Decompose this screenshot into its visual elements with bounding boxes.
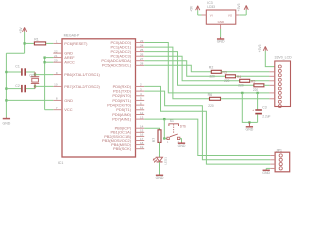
svg-text:220: 220 [210, 75, 216, 79]
svg-text:220: 220 [224, 79, 230, 83]
voltage regulator IC3 LD33 [206, 10, 236, 24]
wire to R1 [25, 42, 35, 44]
svg-text:20: 20 [54, 59, 58, 63]
IC IC1 MEGA8-P body [62, 39, 136, 157]
wire XTAL1 pin [35, 74, 53, 76]
svg-text:28: 28 [140, 62, 144, 66]
IC3 input pin stub [202, 14, 207, 16]
svg-text:PC6(RESET): PC6(RESET) [64, 41, 88, 46]
wire PC4 to R3 [144, 61, 225, 77]
junction C2 row [5, 87, 7, 89]
+5V supply symbol [23, 27, 25, 31]
wire GND pin 8 row [6, 99, 53, 101]
wire R2 to LCD connector [221, 71, 269, 73]
wire R7 to LED [159, 142, 161, 157]
IC1 left pins [53, 42, 62, 44]
svg-text:21: 21 [54, 54, 58, 58]
IC1 right pins [136, 42, 145, 44]
svg-text:PB7(XTAL2/TOSC2): PB7(XTAL2/TOSC2) [64, 84, 100, 89]
svg-text:22: 22 [54, 49, 58, 53]
wire PC2 to R5 [144, 52, 254, 86]
wire GND branch from PD1 row [242, 93, 249, 123]
junction AREF [43, 56, 45, 58]
wire +3V3 to connector [265, 51, 275, 67]
wire PD7 to JP1 and S1 [144, 119, 270, 155]
svg-text:S1: S1 [170, 119, 174, 123]
pushbutton S1 [164, 138, 167, 140]
svg-text:10: 10 [54, 83, 58, 87]
wire PC3 to R4 [144, 56, 240, 81]
stubs into LCD connector [269, 71, 274, 73]
resistor R3 [226, 75, 236, 78]
svg-text:VCC: VCC [64, 107, 72, 112]
svg-text:DT6: DT6 [180, 125, 186, 129]
ground symbol under regulator [220, 37, 222, 39]
wire PB0 to R7 [144, 128, 159, 130]
svg-text:PB6(XTAL1/TOSC1): PB6(XTAL1/TOSC1) [64, 72, 100, 77]
svg-text:Q2: Q2 [29, 74, 34, 78]
svg-text:+3V3: +3V3 [258, 44, 262, 52]
svg-text:C2: C2 [15, 84, 20, 88]
svg-text:GND: GND [3, 122, 11, 126]
svg-text:R4: R4 [237, 75, 242, 79]
capacitor C2 [6, 88, 21, 90]
svg-text:LD33: LD33 [207, 5, 215, 9]
svg-text:R3: R3 [222, 70, 227, 74]
junction GND branch [241, 92, 243, 94]
junction S1 branch [163, 118, 165, 120]
resistor R6 [210, 97, 221, 100]
+3V3 supply at LCD connector [263, 46, 265, 50]
svg-text:+5V: +5V [190, 5, 194, 12]
wire +5V rail down [24, 32, 26, 53]
svg-text:27: 27 [140, 57, 144, 61]
svg-text:12: 12 [140, 111, 144, 115]
svg-text:GND: GND [217, 40, 225, 44]
crystal Q2 [34, 72, 36, 77]
svg-text:R2: R2 [209, 66, 214, 70]
resistor R5 [254, 84, 264, 87]
wire horizontal to left rail [6, 52, 24, 54]
svg-text:+3V3: +3V3 [237, 3, 241, 11]
LED LED1 [157, 157, 163, 161]
svg-text:R1: R1 [34, 38, 39, 42]
svg-text:AVCC: AVCC [64, 60, 75, 65]
svg-text:R5: R5 [251, 80, 256, 84]
svg-text:GND: GND [218, 20, 224, 24]
wire VCC pin 7 [45, 109, 54, 111]
junction AVCC [43, 61, 45, 63]
junction on +5V rail at R1 row [23, 42, 25, 44]
svg-text:GND: GND [262, 171, 270, 175]
svg-text:25: 25 [140, 48, 144, 52]
svg-text:LED1: LED1 [164, 157, 168, 165]
junction at S1 [163, 137, 165, 139]
wire R5 to LCD connector [264, 84, 270, 86]
wire PC0 to LCD connector [144, 43, 269, 93]
ground symbol near C3 [248, 122, 250, 126]
svg-text:19: 19 [140, 145, 144, 149]
junction at ground [248, 121, 250, 123]
wire PC5 to R2 [144, 65, 211, 72]
svg-text:PC5(ADC5/SCL): PC5(ADC5/SCL) [102, 63, 132, 68]
IC3 output pin stub [236, 14, 240, 16]
svg-text:VO: VO [228, 13, 233, 17]
svg-text:2.2uF: 2.2uF [262, 114, 270, 118]
junction C1 row [5, 71, 7, 73]
AVCC AREF rail [44, 58, 46, 110]
wire C3 to ground junction [249, 121, 257, 123]
wire PC1 to R6 [144, 47, 209, 99]
resistor R4 [240, 79, 250, 82]
wire down to S1 [163, 119, 165, 138]
svg-text:C3: C3 [262, 105, 266, 109]
stubs into JP1 [270, 155, 275, 157]
resistor R7 [158, 130, 161, 143]
capacitor C1 [6, 71, 21, 73]
svg-text:GND: GND [178, 144, 186, 148]
wire R6 to LCD connector [221, 98, 270, 100]
wire PD0 to JP1 [144, 86, 270, 164]
svg-text:13: 13 [140, 115, 144, 119]
connector JP1 [275, 152, 290, 172]
wire R4 to LCD connector [250, 80, 270, 82]
wire to +5V [198, 14, 202, 16]
ground symbol under LED [159, 174, 161, 177]
svg-text:PD7(AIN1): PD7(AIN1) [112, 117, 132, 122]
wire to +3V3 [239, 14, 246, 16]
svg-text:C1: C1 [15, 64, 20, 68]
svg-text:GND: GND [156, 176, 164, 180]
junction C3 branch [256, 92, 258, 94]
svg-text:+: + [252, 108, 254, 112]
resistor R1 [34, 42, 45, 45]
svg-text:VI: VI [210, 13, 213, 17]
svg-text:24: 24 [140, 43, 144, 47]
svg-text:33V0_LCD: 33V0_LCD [275, 56, 293, 60]
junction crystal top [34, 73, 36, 75]
svg-text:JP1: JP1 [276, 148, 282, 152]
svg-text:26: 26 [140, 53, 144, 57]
wire R3 to LCD connector [236, 75, 270, 77]
svg-text:11: 11 [140, 106, 143, 110]
ground symbol at S1 [181, 142, 183, 143]
svg-text:R6: R6 [208, 93, 213, 97]
wire JP1 ground pin [266, 167, 270, 169]
svg-text:23: 23 [140, 39, 144, 43]
svg-text:IC1: IC1 [58, 161, 64, 165]
wire LED to ground [159, 162, 161, 175]
junction crystal bottom [34, 85, 36, 87]
wire PD1 to JP1 [144, 91, 270, 160]
svg-text:1: 1 [167, 142, 169, 144]
svg-text:220: 220 [253, 88, 259, 92]
svg-text:PB5(SCK): PB5(SCK) [113, 146, 132, 151]
svg-text:GND: GND [246, 127, 254, 131]
svg-text:R7: R7 [152, 138, 156, 142]
svg-text:GND: GND [64, 98, 73, 103]
resistor R2 [211, 70, 221, 73]
capacitor C3 (polarized) [257, 93, 259, 110]
wire R1 to pin1 [46, 42, 54, 44]
connector 33V0_LCD [275, 61, 291, 107]
left vertical rail [5, 53, 7, 117]
svg-text:220: 220 [238, 84, 244, 88]
wire S1 to ground [180, 138, 182, 140]
ground symbol at JP1 [265, 169, 267, 172]
ground symbol lower left [5, 117, 7, 118]
svg-text:+5V: +5V [19, 27, 23, 34]
IC3 ground pin [220, 24, 222, 29]
svg-text:MEGA8-P: MEGA8-P [64, 33, 80, 37]
svg-text:220: 220 [208, 104, 214, 108]
+5V supply at regulator [196, 6, 198, 10]
wire XTAL2 pin [35, 85, 53, 87]
+3V3 supply at regulator [244, 5, 246, 9]
junction GND pin row [5, 99, 7, 101]
